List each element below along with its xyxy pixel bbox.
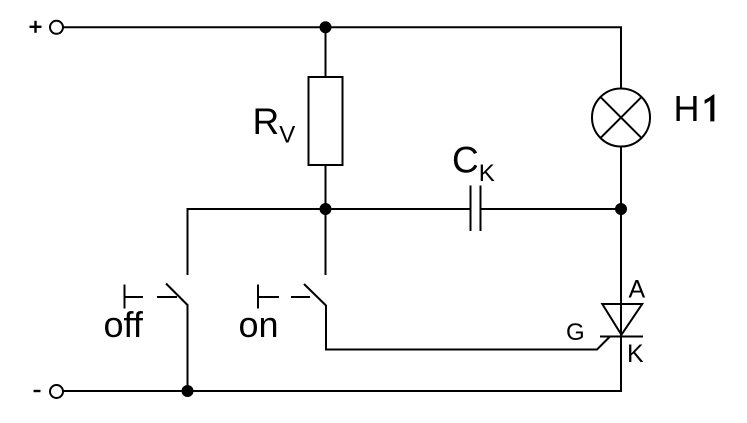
thyristor V1 triangle <box>602 304 642 335</box>
resistor RV <box>309 77 343 165</box>
thyristor cathode bar <box>600 336 643 338</box>
off actuator <box>125 285 178 309</box>
minus label <box>34 390 41 392</box>
node right junction <box>616 204 626 214</box>
svg-text:K: K <box>627 340 644 368</box>
wire to resistor <box>325 27 327 77</box>
svg-text:off: off <box>104 304 144 345</box>
capacitor CK <box>470 186 472 232</box>
wire top <box>64 27 622 88</box>
svg-text:on: on <box>239 304 279 345</box>
node bottom junction <box>183 386 193 396</box>
wire node to on switch <box>325 209 327 275</box>
node mid junction <box>321 204 331 214</box>
on actuator <box>258 285 310 309</box>
svg-text:G: G <box>566 319 585 346</box>
svg-text:A: A <box>629 276 646 304</box>
wire cathode down and bottom wire <box>64 337 622 392</box>
switch S-off blade <box>166 284 188 306</box>
wire lamp to node <box>620 147 622 210</box>
terminal circle minus <box>50 385 63 398</box>
plus label <box>30 21 42 33</box>
svg-text:H: H <box>674 88 700 129</box>
lamp H1 <box>592 89 650 147</box>
node top junction <box>321 22 331 32</box>
wire on switch to gate <box>326 305 610 350</box>
wire node to thyristor anode <box>620 209 622 337</box>
wire resistor to mid node <box>325 165 327 209</box>
wire capacitor to lamp branch <box>481 208 621 210</box>
switch S-on blade <box>304 284 326 306</box>
terminal circle plus <box>50 21 63 34</box>
wire off switch to bottom node <box>187 305 189 391</box>
wire mid left to off branch <box>188 209 471 275</box>
